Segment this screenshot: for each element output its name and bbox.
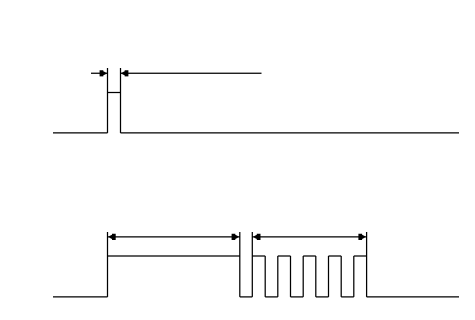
wire burst low4 baseline (341, 296, 354, 298)
wire bottom long pulse falling edge / extension line (239, 232, 241, 297)
wire burst pulse2 top (278, 255, 291, 257)
arrowhead bottom dimension 2 right (points right) (358, 234, 366, 240)
wire burst pulse4 top (329, 255, 342, 257)
wire burst pulse5 rising edge (353, 256, 355, 297)
wire bottom long pulse top (108, 255, 240, 257)
wire top pulse rising edge / extension line (107, 68, 109, 133)
wire top pulse cap (108, 92, 121, 94)
wire top pulse falling edge / extension line (120, 68, 122, 133)
wire bottom long pulse rising edge / extension line (107, 232, 109, 297)
wire top baseline right segment (121, 132, 460, 134)
wire burst pulse1 top (252, 255, 265, 257)
arrowhead top dimension left (points right) (100, 70, 108, 76)
wire bottom baseline left segment (53, 296, 108, 298)
wire burst low3 baseline (316, 296, 329, 298)
wire burst pulse3 rising edge (302, 256, 304, 297)
wire burst first rising edge / extension line (251, 232, 253, 297)
wire top baseline left segment (53, 132, 108, 134)
wire top dimension leader right (121, 72, 262, 74)
wire burst pulse2 rising edge (277, 256, 279, 297)
arrowhead bottom dimension 2 left (points left) (253, 234, 261, 240)
wire bottom dimension line 1 (108, 236, 240, 238)
wire bottom dimension line 2 (252, 236, 366, 238)
wire burst low2 baseline (291, 296, 304, 298)
wire burst pulse5 top (354, 255, 367, 257)
wire burst pulse2 falling edge (290, 256, 292, 297)
arrowhead bottom dimension 1 right (points right) (232, 234, 240, 240)
wire burst low1 baseline (265, 296, 278, 298)
wire burst pulse4 rising edge (328, 256, 330, 297)
arrowhead top dimension right (points left) (121, 70, 129, 76)
arrowhead bottom dimension 1 left (points left) (108, 234, 116, 240)
wire burst pulse1 falling edge (264, 256, 266, 297)
wire bottom baseline right segment (367, 296, 459, 298)
wire burst pulse4 falling edge (340, 256, 342, 297)
wire bottom gap baseline (240, 296, 253, 298)
wire burst last falling edge / extension line (366, 232, 368, 297)
wire burst pulse3 falling edge (315, 256, 317, 297)
wire burst pulse3 top (303, 255, 316, 257)
wire top dimension leader left (91, 72, 108, 74)
